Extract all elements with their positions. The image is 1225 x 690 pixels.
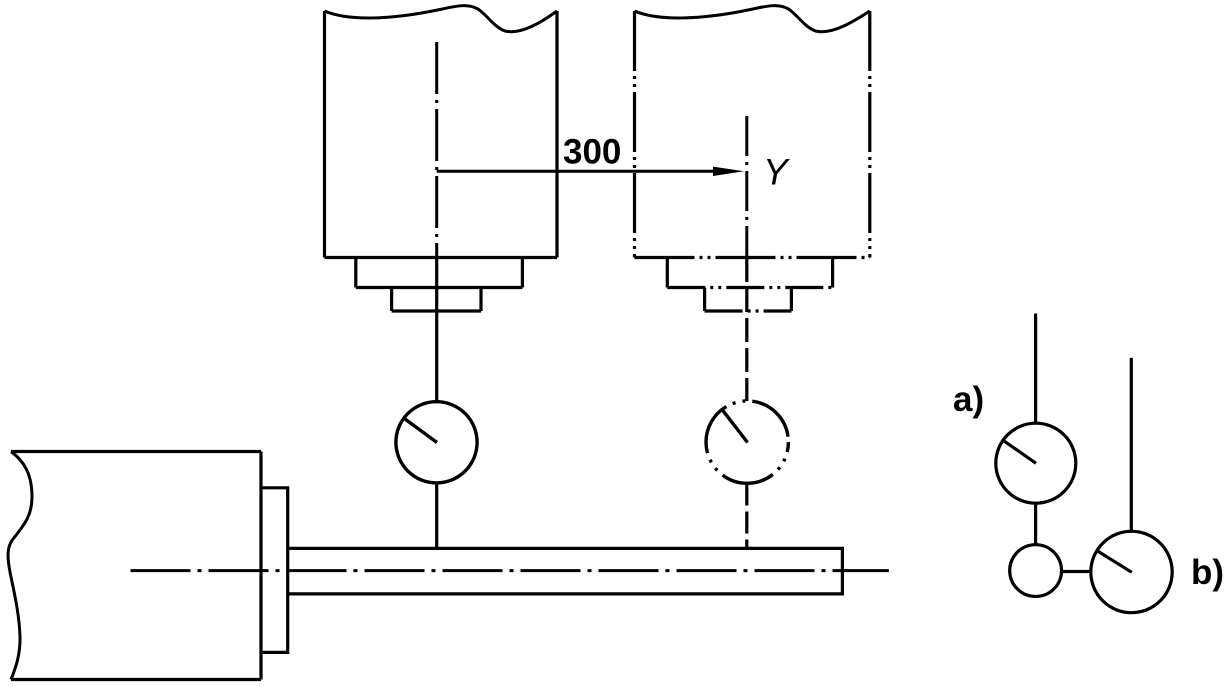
dial indicator needle, position 2 [722,410,747,443]
symbol a) needle [1003,440,1036,463]
chuck flange [261,488,288,653]
symbol b) indicator stem [1130,358,1133,531]
svg-text:Y: Y [763,152,790,193]
spindle housing 1 wavy break top [325,6,558,32]
spindle nose step 1, position 1 [356,258,523,288]
indicator stem upper, position 1 [435,258,438,402]
symbol a) link to pivot [1034,503,1037,545]
mandrel axis centerline [131,569,890,572]
dial indicator circle, position 1 [396,402,477,483]
spindle housing, position 1 [325,11,558,258]
spindle nose step 2, position 2 (phantom) [705,288,792,312]
spindle housing 2 wavy break top [635,6,870,32]
indicator stem upper, position 2 (dashed) [745,258,748,401]
symbol b) link from pivot [1062,570,1091,573]
spindle housing, position 2 (phantom) [635,11,870,258]
symbol b) needle [1097,551,1132,573]
dimension arrow line 300 [437,170,716,173]
spindle centerline, position 2 [745,116,748,258]
headstock broken (wavy) left edge [8,452,32,680]
symbol a) pivot circle [1010,545,1062,597]
symbol a) dial circle [996,423,1076,503]
dial indicator circle, position 2 (dashed) [706,401,788,483]
svg-text:a): a) [953,380,984,419]
spindle centerline, position 1 [435,42,438,258]
indicator stem lower, position 1 [435,483,438,549]
indicator stem lower, position 2 (dashed) [745,484,748,549]
dial indicator needle, position 1 [404,419,437,443]
svg-text:300: 300 [563,133,621,172]
dimension arrowhead [713,167,744,176]
test mandrel bar [288,548,843,594]
headstock housing body [11,452,261,680]
symbol b) dial circle [1091,531,1172,612]
symbol a) indicator stem [1034,314,1037,424]
svg-text:b): b) [1191,553,1224,592]
spindle nose step 2, position 1 [392,288,481,312]
spindle nose step 1, position 2 (phantom) [667,258,832,288]
